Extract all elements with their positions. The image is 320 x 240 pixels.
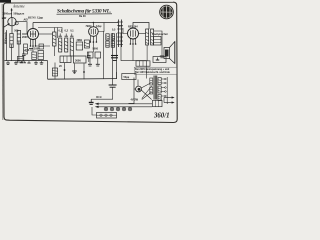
coupling cap dark plates <box>111 56 118 61</box>
svg-text:0,1: 0,1 <box>70 30 74 33</box>
tube V3 cathode wire down <box>132 45 134 61</box>
voltage tap wires with terminals <box>161 77 167 104</box>
antenna lead wire <box>11 8 13 17</box>
ground tee on rail <box>72 64 77 75</box>
tube V3 grid wire left <box>123 28 128 34</box>
small box mid cluster <box>39 44 44 49</box>
output transformer primary <box>146 29 149 45</box>
transformer winding right upper <box>158 78 161 85</box>
heater wire lower with arrow <box>95 106 152 108</box>
loudspeaker <box>164 42 175 64</box>
svg-text:Ra 30: Ra 30 <box>79 15 86 18</box>
cap at cluster right <box>87 52 91 62</box>
field coil box <box>136 61 150 66</box>
enclosure riser right <box>103 31 105 79</box>
svg-text:3000: 3000 <box>75 59 81 63</box>
hum-buck box with ground <box>153 57 166 63</box>
screen resistor R1 (hatched) <box>53 32 56 46</box>
wire R1 top <box>53 28 55 33</box>
svg-text:Wellensch.: Wellensch. <box>4 31 7 44</box>
svg-text:Antenne: Antenne <box>12 5 25 9</box>
trimmer caps row <box>59 34 74 37</box>
svg-text:0,1: 0,1 <box>119 25 123 28</box>
bypass cap to chassis 2 <box>14 61 26 65</box>
tube V2 lead to rail <box>92 23 94 27</box>
junction dot V2 <box>93 22 95 24</box>
svg-text:0,2: 0,2 <box>65 30 69 33</box>
tube V1 cathode leads down <box>30 39 37 52</box>
tuning coil L2 <box>17 31 20 45</box>
bypass cap to chassis 3 <box>34 61 43 65</box>
wire switch to V1 grid <box>22 28 27 34</box>
tube V3 (output) <box>128 28 139 39</box>
small box 40ohm upper <box>122 74 136 80</box>
chassis ground lug <box>89 99 96 104</box>
block condenser box A <box>60 56 71 63</box>
wire transformer to speaker <box>154 31 162 48</box>
hanger with box <box>52 63 57 80</box>
hanger wire with dot <box>64 63 66 79</box>
svg-text:500: 500 <box>14 30 19 33</box>
rectifier tube V4 <box>136 86 142 92</box>
screen feed wire from V1 <box>39 33 53 35</box>
power unit frame <box>129 78 135 104</box>
mains arrows <box>164 96 175 103</box>
vertical wire pair <box>113 33 117 85</box>
svg-text:40 Ω: 40 Ω <box>96 96 101 99</box>
tube V1 anode lead up <box>32 23 34 29</box>
border frame <box>4 2 178 122</box>
wire R1 bottom <box>53 46 55 56</box>
wire from switch to coil top <box>11 26 13 33</box>
transformer winding right middle <box>158 86 161 93</box>
enclosure riser left <box>47 61 49 80</box>
svg-text:MW: MW <box>2 17 7 20</box>
rectifier fan leads <box>141 83 151 100</box>
resistor R4 <box>70 38 73 56</box>
secondary wire <box>38 28 62 34</box>
wire tube V3 to transformer <box>139 33 146 35</box>
svg-text:Lautsprecher: Lautsprecher <box>152 33 169 36</box>
border inner left line <box>1 4 4 120</box>
detector resistor boxes <box>87 52 100 58</box>
tube V1 (HF pentode) <box>28 29 39 40</box>
electrolytic cap below rail <box>109 85 117 99</box>
tube V3 anode wire up <box>133 23 149 30</box>
tuning gang capacitor (twin vertical) <box>117 20 123 48</box>
svg-text:1000cm: 1000cm <box>3 13 13 16</box>
transformer winding right lower <box>158 95 161 101</box>
coupling boxes below V1 <box>32 51 44 60</box>
vertical riser x57.5 <box>57 28 59 39</box>
detector ground tees <box>88 58 100 66</box>
mains switch box <box>153 100 163 106</box>
tube V2 leads down <box>90 36 98 52</box>
heater wire upper with arrow <box>95 103 152 105</box>
bus tee extra <box>27 61 30 63</box>
svg-text:2MΩ: 2MΩ <box>77 39 82 42</box>
paper background <box>0 0 180 127</box>
wire right from switch <box>16 22 27 28</box>
rectifier feed wires <box>134 80 138 90</box>
title underline <box>57 13 113 15</box>
wire V1 cathode to cluster <box>36 45 51 47</box>
decoupling resistor R2 <box>59 38 62 52</box>
mains transformer core <box>150 76 157 100</box>
wire L2 bottom down <box>18 42 20 61</box>
heater tap wire <box>96 98 114 100</box>
grid leak box <box>76 42 82 50</box>
wire rail to heater <box>116 72 118 79</box>
speaker feed caps <box>160 48 164 58</box>
antenna coupling switch (circle with wiper arrow) <box>4 18 18 28</box>
bypass cap to chassis 1 <box>6 61 10 65</box>
left vertical wire <box>6 30 8 61</box>
svg-text:0,1: 0,1 <box>59 30 63 33</box>
tube V2 (detector) <box>89 27 99 37</box>
valve heater sockets row <box>104 107 132 111</box>
padding capacitor left <box>22 49 26 61</box>
maker logo (dark circle emblem) <box>159 5 174 20</box>
ground bus left <box>5 60 48 62</box>
wave trap component <box>24 44 28 54</box>
hatched component <box>84 40 89 48</box>
svg-text:Schaltschema für 5330 WL.: Schaltschema für 5330 WL. <box>57 8 111 14</box>
svg-text:5000: 5000 <box>93 48 99 51</box>
note underline box <box>134 67 177 74</box>
main anode rail wire <box>33 22 118 24</box>
wire bus to power unit <box>121 48 146 79</box>
barretter box <box>92 107 117 118</box>
resistor R3 <box>65 38 68 52</box>
svg-text:RENS 12µµ: RENS 12µµ <box>28 16 43 20</box>
output choke box <box>154 37 162 46</box>
filter box on bus <box>18 56 24 62</box>
svg-text:2000: 2000 <box>22 36 28 39</box>
svg-text:4V 2W: 4V 2W <box>131 98 139 101</box>
scan artifact blob top-left <box>0 0 11 3</box>
svg-text:150: 150 <box>25 49 30 52</box>
hanger wire with terminal <box>83 64 85 80</box>
svg-text:Bei 110V Netzanschl. und Erde: Bei 110V Netzanschl. und Erde <box>135 71 170 74</box>
antenna junction dot <box>11 9 13 11</box>
riser x121 from gang <box>120 33 122 48</box>
grid wire from V1 to tank <box>22 33 28 35</box>
block condenser box B label 3000 <box>74 56 87 63</box>
wire L1 bottom to bus <box>11 45 13 61</box>
bottom rail <box>48 78 117 81</box>
svg-text:50µµ: 50µµ <box>124 76 130 79</box>
tube V3 leads down <box>130 39 137 45</box>
antenna coil L1 <box>10 34 13 48</box>
svg-text:360/1: 360/1 <box>153 113 169 120</box>
wire transformer bottom to bus <box>146 45 148 61</box>
tube V2 grid loop <box>98 23 104 32</box>
IF transformer coil lower <box>106 41 115 47</box>
output transformer secondary <box>151 29 154 45</box>
cathode cap small <box>29 49 33 51</box>
svg-text:500µµcm: 500µµcm <box>14 13 25 16</box>
IF transformer coil upper <box>106 34 115 40</box>
